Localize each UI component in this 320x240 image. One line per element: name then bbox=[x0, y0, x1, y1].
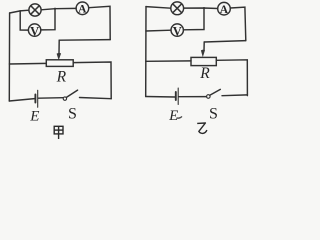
switch S (left): pivot circle bbox=[63, 97, 66, 100]
wire: switch fixed contact to bottom-right (right) bbox=[222, 94, 247, 97]
label yi (Chinese, drawn) bbox=[197, 123, 207, 133]
wire: voltmeter branch left (right circuit) bbox=[146, 29, 171, 32]
svg-text:E: E bbox=[168, 108, 178, 124]
svg-text:R: R bbox=[199, 65, 210, 82]
wire: left vertical bbox=[145, 7, 147, 97]
ammeter A1 bbox=[76, 2, 89, 15]
scan smudge near E (right) bbox=[177, 116, 183, 118]
wire: slider feed horizontal bbox=[59, 39, 110, 42]
voltmeter V1 bbox=[28, 24, 40, 36]
wire: left vertical bbox=[8, 13, 10, 101]
svg-text:S: S bbox=[68, 105, 77, 122]
wire: slider feed vertical with arrowhead (right) bbox=[203, 42, 205, 51]
label jia (Chinese, drawn) bbox=[54, 126, 63, 139]
wire: lamp to ammeter bbox=[184, 7, 218, 10]
wire: bottom left to battery bbox=[9, 99, 34, 101]
svg-text:S: S bbox=[209, 105, 218, 122]
wire: voltmeter branch left stub bbox=[20, 11, 28, 30]
wire: slider feed vertical with arrowhead bbox=[58, 40, 60, 53]
node: junction top wire / voltmeter branch bbox=[54, 8, 56, 10]
wire: slider feed horizontal (right) bbox=[204, 41, 246, 42]
svg-text:R: R bbox=[56, 68, 67, 85]
wire: top left segment bbox=[10, 10, 29, 13]
switch S (right): lever bbox=[210, 89, 221, 95]
rheostat R (right) body bbox=[191, 57, 216, 65]
wire: left mid (right circuit) bbox=[146, 60, 191, 62]
lamp L1 (circle with X) bbox=[29, 4, 41, 16]
wire: ammeter to top-right corner, down bbox=[89, 6, 111, 39]
battery E (left): long thin plate bbox=[37, 90, 39, 107]
battery E (left): short thick plate bbox=[34, 95, 36, 103]
switch S (left): lever bbox=[66, 90, 77, 97]
battery E (right): long thin plate bbox=[177, 88, 179, 105]
battery E (right): short thick plate bbox=[175, 92, 177, 100]
wire: left mid (battery+ to rheostat left) bbox=[9, 62, 46, 65]
rheostat R (left) body bbox=[46, 60, 73, 67]
node: junction top wire / voltmeter branch (right) bbox=[203, 7, 205, 9]
lamp L2 (circle with X) bbox=[171, 2, 184, 15]
wire: voltmeter right to top wire junction bbox=[41, 9, 55, 30]
switch S (right): pivot circle bbox=[207, 95, 211, 99]
svg-text:E: E bbox=[29, 108, 39, 124]
wire: voltmeter right to top wire junction (right) bbox=[183, 8, 204, 30]
wire: battery to switch bbox=[38, 97, 63, 100]
ammeter A2 bbox=[218, 2, 231, 15]
wire: ammeter to top-right corner, down bbox=[230, 7, 246, 41]
wire: bottom left to battery (right) bbox=[146, 96, 175, 99]
wire: lamp to ammeter bbox=[41, 8, 76, 9]
wire: top left segment bbox=[146, 7, 171, 9]
wire: rheostat right to lower right vertical bbox=[73, 62, 111, 99]
wire: switch fixed contact to bottom-right bbox=[80, 98, 112, 99]
wire: rheostat right to lower right vertical bbox=[216, 60, 247, 96]
voltmeter V2 bbox=[171, 24, 183, 36]
wire: battery to switch (right) bbox=[179, 96, 207, 98]
svg-text:V: V bbox=[30, 25, 39, 39]
svg-text:A: A bbox=[220, 4, 229, 16]
svg-text:A: A bbox=[78, 4, 87, 16]
svg-text:V: V bbox=[173, 25, 182, 39]
